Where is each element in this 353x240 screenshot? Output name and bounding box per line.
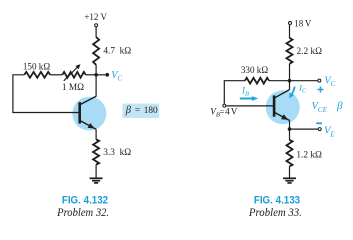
ground right circuit [283,178,296,183]
svg-text:Problem 32.: Problem 32. [56,207,109,219]
wire corner VB up to 330k row [224,81,245,104]
svg-text:FIG. 4.133: FIG. 4.133 [254,195,300,207]
wire R1.2k to ground [289,166,291,178]
resistor 3.3 kOhm [93,140,99,165]
svg-text:180: 180 [144,106,158,116]
resistor 330 kOhm [245,78,269,84]
collector node junction dot [288,79,292,83]
wire VE node down to R1.2k [289,129,291,140]
wire collector vertical right [289,81,291,90]
transistor Q2 collector lead [275,90,290,98]
minus sign [316,122,322,124]
svg-text:+12 V: +12 V [84,12,107,22]
wire R3.3k to ground [95,165,97,178]
wire 330k to collector node [269,80,290,82]
svg-text:=: = [135,106,140,116]
potentiometer arrow shaft [64,67,78,81]
svg-text:1 MΩ: 1 MΩ [62,83,84,93]
wire emitter to VE node [289,121,291,130]
svg-text:3.3 kΩ: 3.3 kΩ [103,148,131,158]
transistor Q2 emitter arrowhead [281,114,288,120]
transistor Q1 base bar [78,102,81,123]
svg-text:2.2 kΩ: 2.2 kΩ [297,47,323,57]
svg-text:β: β [125,105,132,116]
wire between 150k and 1M [50,74,62,76]
transistor Q1 collector lead [80,96,96,104]
wire emitter down [95,129,97,139]
wire stub to VC terminal [290,80,318,82]
ground left circuit [90,178,103,183]
resistor 150 kOhm [24,72,50,78]
wire collector vertical left [95,75,97,97]
VE terminal circle [318,128,321,131]
wire +12V terminal to R 4.7k [95,27,97,37]
wire base right circuit [226,105,273,107]
transistor Q2 body circle [266,90,300,124]
svg-text:1.2 kΩ: 1.2 kΩ [296,151,322,161]
IB arrow [240,98,252,100]
svg-text:Problem 33.: Problem 33. [248,207,302,219]
VC terminal dot [105,73,109,77]
potentiometer 1 MOhm zigzag [62,72,85,78]
transistor Q1 body circle [72,97,106,131]
wire 1M to node VC [86,74,96,76]
beta box [122,104,159,118]
VE node junction dot [288,127,292,131]
node VC junction dot [94,73,98,77]
wire feedback loop: left corner down to base [13,75,79,113]
resistor 1.2 kOhm [287,140,293,166]
transistor Q1 emitter lead [80,121,96,130]
svg-text:β: β [336,100,343,112]
wire stub to VC terminal dot [96,74,105,76]
svg-text:=: = [220,106,225,116]
resistor 4.7 kOhm [93,37,99,65]
transistor Q2 emitter lead [275,113,290,121]
svg-text:V: V [231,106,238,116]
supply terminal +12 V [95,24,98,27]
wire stub to VE terminal [290,128,318,130]
svg-text:150 kΩ: 150 kΩ [23,61,50,71]
transistor Q1 emitter arrowhead [88,123,95,129]
resistor 2.2 kOhm [287,38,293,64]
plus sign [317,87,323,93]
svg-text:18: 18 [294,18,304,28]
wire R4.7k to node VC [95,65,97,75]
VB terminal circle [223,104,226,107]
supply terminal 18 V [289,22,292,25]
transistor Q2 base bar [273,95,276,116]
svg-text:4.7 kΩ: 4.7 kΩ [103,47,131,57]
IC arrow [291,87,295,96]
svg-text:330 kΩ: 330 kΩ [241,65,268,75]
wire R2.2k to collector node [289,64,291,81]
potentiometer arrowhead [75,64,80,69]
VC terminal circle [318,79,321,82]
svg-text:4: 4 [225,106,230,116]
svg-text:V: V [305,18,312,28]
svg-text:FIG. 4.132: FIG. 4.132 [62,195,108,207]
wire 18V terminal to R2.2k [289,25,291,38]
